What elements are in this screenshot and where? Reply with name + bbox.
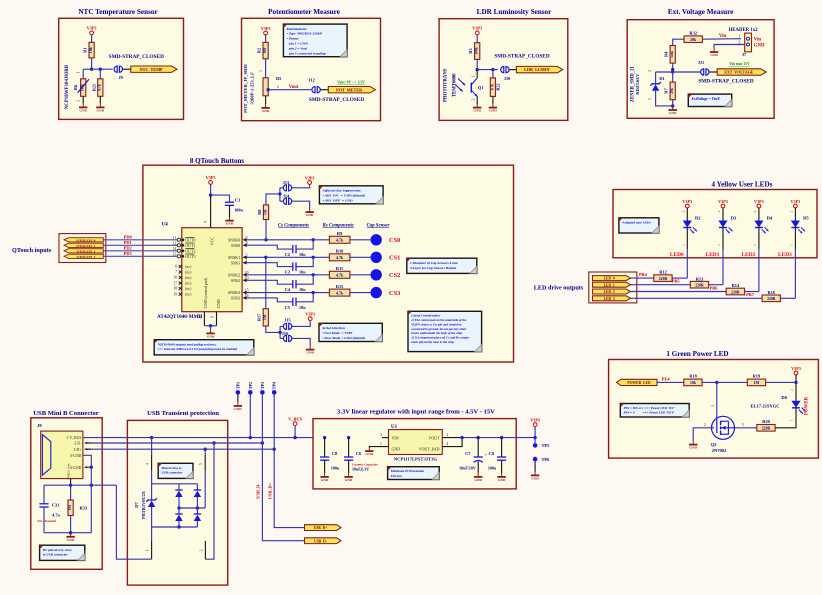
- wire V_BUS rail: [83, 437, 382, 439]
- note aligned leds: [619, 218, 659, 233]
- svg-text:LED0: LED0: [670, 252, 684, 258]
- power V3P3 (LDR): [472, 26, 482, 35]
- junction C9: [500, 436, 503, 439]
- SMD-STRAP_CLOSED label (EXT): [698, 78, 754, 84]
- wire zener to bottom rail: [151, 507, 153, 527]
- svg-text:U4: U4: [162, 223, 169, 228]
- Transient section title: [147, 410, 219, 417]
- svg-text:D2: D2: [695, 216, 701, 221]
- svg-text:1: 1: [77, 71, 81, 73]
- pin 11 OUT0: [173, 236, 196, 243]
- svg-text:R5: R5: [276, 76, 282, 81]
- nc pins 6 7 10 17 18 19: [173, 265, 192, 297]
- net label PD3: [124, 251, 133, 256]
- svg-text:POWER: POWER: [805, 396, 810, 415]
- svg-text:POT_METER_JP_SIDE: POT_METER_JP_SIDE: [243, 64, 248, 113]
- resistor R10: [329, 249, 350, 261]
- net label PD2: [124, 245, 132, 250]
- power V3P3 (power led): [791, 366, 801, 375]
- wire D- rail: [86, 442, 262, 444]
- junction gnd node: [671, 104, 674, 107]
- port flag LED 3: [593, 296, 631, 301]
- svg-text:QTouch inputs: QTouch inputs: [12, 247, 52, 254]
- wire C31 to bottom: [43, 507, 45, 533]
- svg-text:R21: R21: [91, 84, 96, 91]
- wire rc bottom rail: [44, 532, 91, 534]
- pin 2 label D2: [682, 210, 686, 212]
- resistor R22: [490, 78, 500, 97]
- svg-text:3260P-1-253_LF: 3260P-1-253_LF: [250, 72, 255, 105]
- svg-text:GND: GND: [473, 109, 481, 113]
- D6 part number: [750, 404, 779, 409]
- wire C9 to gnd: [501, 460, 503, 473]
- wire Q1 to gnd: [476, 97, 478, 104]
- power V3P3 (NTC): [87, 26, 97, 35]
- junction rc bottom: [69, 531, 72, 534]
- svg-text:220R: 220R: [659, 277, 668, 281]
- svg-text:NTC Temperature Sensor: NTC Temperature Sensor: [78, 8, 158, 16]
- svg-text:GND: GND: [710, 53, 718, 57]
- ground under R6: [79, 104, 88, 113]
- wire SNSK3 row: [247, 292, 330, 294]
- svg-text:Vin: Vin: [719, 34, 727, 39]
- wire D4 cathode down: [758, 227, 760, 291]
- power V3P3 (J15): [305, 312, 315, 321]
- svg-text:Potentiometer Measure: Potentiometer Measure: [268, 8, 340, 16]
- svg-text:3: 3: [259, 70, 263, 72]
- svg-text:TP6: TP6: [542, 457, 551, 462]
- wire shield down: [90, 467, 92, 485]
- svg-text:GND: GND: [79, 108, 87, 112]
- strap J10: [501, 67, 511, 81]
- svg-text:TEMT6000: TEMT6000: [453, 73, 458, 97]
- wire V3P3 down: [795, 375, 797, 401]
- ground ext: [669, 106, 678, 115]
- ground C7: [474, 473, 483, 482]
- note AKS: [319, 186, 383, 204]
- wire D6 to R20: [775, 407, 796, 427]
- ground C8: [320, 473, 329, 482]
- wire SNSK2 row: [247, 274, 330, 276]
- svg-text:nents physically near to the c: nents physically near to the chip.: [411, 340, 454, 344]
- net label LED3: [778, 252, 792, 258]
- net label CS2: [389, 272, 400, 279]
- svg-text:GND (central pad): GND (central pad): [203, 277, 208, 308]
- wire pot to gnd: [265, 96, 267, 105]
- wire pin5 to mid rail: [204, 470, 206, 508]
- svg-text:C3: C3: [285, 270, 291, 275]
- svg-text:TP1: TP1: [235, 382, 240, 389]
- test point TP2: [248, 382, 253, 395]
- svg-text:10n: 10n: [299, 305, 306, 310]
- svg-text:VOUT_PAD: VOUT_PAD: [419, 446, 440, 451]
- svg-text:C2: C2: [285, 252, 290, 257]
- Power LED title: [666, 350, 728, 358]
- svg-text:SNSK2: SNSK2: [228, 272, 240, 277]
- svg-text:Potentiometer: Potentiometer: [287, 27, 308, 31]
- wire to pin1: [151, 527, 153, 541]
- wire D+ to flag: [274, 449, 304, 527]
- wire R9 to sensor: [350, 239, 371, 241]
- header J7 1x2: [729, 28, 765, 57]
- NTC part number text: [65, 64, 70, 109]
- wire R2 to pot: [265, 59, 267, 78]
- svg-text:PHOTOTRANS: PHOTOTRANS: [444, 68, 449, 102]
- svg-text:USB D-: USB D-: [314, 539, 328, 543]
- wire C9 leg: [501, 438, 503, 457]
- wire R33 leg: [70, 485, 72, 500]
- ground Q2: [689, 441, 698, 450]
- svg-text:220R: 220R: [762, 427, 771, 431]
- wire R8 top to straps: [266, 194, 280, 205]
- svg-text:1: 1: [717, 244, 721, 246]
- capacitor C7 polarized: [459, 451, 487, 471]
- wire C7 leg: [477, 438, 479, 457]
- junction dminus tap: [212, 441, 215, 444]
- svg-text:J10: J10: [504, 76, 510, 81]
- test point TP4: [272, 381, 277, 395]
- svg-text:R7: R7: [663, 88, 668, 94]
- svg-text:Cs Components: Cs Components: [278, 223, 309, 228]
- svg-text:(nc): (nc): [185, 276, 192, 280]
- wire node to D1: [655, 72, 657, 84]
- wire LED0 to R12: [631, 277, 654, 279]
- svg-text:J11: J11: [698, 60, 704, 65]
- wire V3P3 to R1: [91, 35, 93, 43]
- svg-text:PB4: PB4: [639, 272, 648, 277]
- capacitor C4: [285, 280, 307, 292]
- svg-text:AT42QT1040-MMH: AT42QT1040-MMH: [157, 314, 202, 320]
- chip pins SNSK1/SNS1: [228, 253, 248, 265]
- wire C6 to gnd: [348, 460, 350, 473]
- svg-text:J15: J15: [284, 317, 290, 322]
- svg-text:220R: 220R: [731, 290, 740, 294]
- wire node to R6: [82, 69, 84, 79]
- strap J13: [283, 180, 292, 191]
- junction VOUT: [460, 436, 463, 439]
- junction V_BUS: [293, 436, 296, 439]
- svg-text:EL17-21SYGC: EL17-21SYGC: [750, 404, 779, 409]
- note potentiometer info: [283, 24, 347, 57]
- svg-text:R10: R10: [336, 249, 344, 254]
- pin 2 label D6: [789, 389, 793, 391]
- svg-text:OUT0: OUT0: [185, 238, 195, 243]
- net label Vin: [719, 34, 727, 39]
- resistor R19: [747, 374, 765, 386]
- wire pin1 to usb: [116, 485, 151, 559]
- svg-text:1: 1: [711, 405, 715, 407]
- wire SNS3 to cap: [247, 298, 293, 302]
- svg-text:GND: GND: [67, 538, 75, 542]
- svg-text:GND: GND: [234, 407, 242, 411]
- wire ext rail: [656, 71, 701, 73]
- LDR section title: [477, 8, 552, 16]
- not mounted text: [36, 519, 56, 523]
- wire R11 to sensor: [350, 274, 371, 276]
- svg-text:D1: D1: [659, 76, 664, 81]
- chip pins SNSK2/SNS2: [228, 271, 249, 283]
- svg-text:CS1: CS1: [389, 255, 400, 262]
- net label PD1: [124, 240, 132, 245]
- wire esd top rail: [152, 483, 198, 485]
- pin 2 stub: [199, 541, 205, 559]
- svg-text:• AKS 'OFF' = GND: • AKS 'OFF' = GND: [323, 198, 353, 202]
- power V3P3 out: [530, 418, 540, 427]
- pin 4 wire U1: [442, 438, 462, 447]
- net label USB_D-: [256, 483, 261, 499]
- wire SNSK1 row: [247, 256, 330, 258]
- svg-text:SNS2: SNS2: [231, 278, 240, 283]
- wire LED3 to R16: [631, 297, 763, 299]
- wire strap left bus: [278, 188, 283, 201]
- svg-text:(nc): (nc): [185, 271, 192, 275]
- svg-text:Cap Sensor: Cap Sensor: [367, 223, 390, 228]
- svg-text:8x8 mm: 8x8 mm: [391, 474, 402, 478]
- pin 2 label D1: [648, 70, 652, 72]
- pin 3 label Q2: [742, 423, 744, 427]
- Regulator section box: [313, 419, 516, 489]
- svg-text:1: 1: [790, 244, 794, 246]
- svg-text:1: 1: [738, 34, 740, 38]
- green Vout note: [337, 80, 365, 84]
- svg-text:2: 2: [717, 210, 721, 212]
- svg-text:1: 1: [380, 442, 382, 446]
- wire cap to SNSK0: [296, 240, 313, 249]
- svg-text:V3P3: V3P3: [206, 175, 216, 180]
- ground under R22: [489, 104, 498, 113]
- svg-text:10: 10: [173, 276, 177, 280]
- wire V3P3 to R2: [265, 35, 267, 43]
- pin arrow D-: [85, 442, 91, 444]
- svg-text:R17: R17: [256, 314, 261, 321]
- junction C7: [477, 436, 480, 439]
- wire to zener: [151, 484, 153, 500]
- svg-text:SNSK3: SNSK3: [228, 290, 240, 295]
- pin 2 label D3: [717, 210, 721, 212]
- svg-text:R33: R33: [80, 506, 88, 511]
- wire V3P3 col: [534, 427, 536, 444]
- svg-text:R12: R12: [659, 270, 667, 275]
- port flag POWER LED: [617, 379, 658, 385]
- U1 part number: [394, 456, 438, 461]
- svg-text:V3P3: V3P3: [791, 366, 801, 371]
- capacitor C31: [39, 503, 60, 518]
- svg-text:V_BUS: V_BUS: [288, 416, 302, 421]
- svg-text:J14: J14: [283, 194, 290, 199]
- wire R22 to gnd: [492, 96, 494, 104]
- wire TP2 to V_BUS: [249, 395, 251, 438]
- svg-text:GND: GND: [306, 213, 314, 217]
- power V3P3 (LED1): [718, 199, 728, 208]
- svg-text:NCP18WF104J03RB: NCP18WF104J03RB: [65, 64, 70, 109]
- thermistor R6: [73, 79, 89, 97]
- svg-text:R9: R9: [337, 231, 343, 236]
- svg-text:SNS1: SNS1: [231, 260, 240, 265]
- Ext Voltage section title: [668, 8, 734, 16]
- svg-text:C31: C31: [52, 503, 60, 508]
- wire pin5 upper: [204, 449, 206, 455]
- junction R8-SNSK0: [264, 238, 267, 241]
- svg-text:to USB connector: to USB connector: [43, 553, 69, 557]
- svg-text:GND: GND: [754, 44, 765, 49]
- svg-text:SNS0: SNS0: [231, 243, 240, 248]
- ground U1: [365, 448, 374, 457]
- wire tap to R21: [99, 69, 101, 79]
- svg-text:J9: J9: [118, 75, 122, 80]
- wire R33 to bottom: [70, 516, 72, 533]
- port flag QTOUCH 3: [64, 254, 103, 259]
- svg-text:PD0: PD0: [124, 234, 133, 239]
- wire 5-GND jog: [83, 455, 91, 467]
- port flag LED 2: [593, 289, 631, 294]
- wire V3P3 to D4: [758, 208, 760, 221]
- svg-text:1: 1: [146, 549, 150, 551]
- wire R13 to LED col: [709, 284, 723, 286]
- wire D5 cathode down: [794, 227, 796, 298]
- svg-text:2: 2: [704, 423, 706, 427]
- junction R17-SNSK1: [264, 256, 267, 259]
- port flag POT METER: [328, 87, 375, 93]
- note heatsink: [388, 467, 440, 480]
- svg-text:USB Mini B Connector: USB Mini B Connector: [33, 410, 98, 417]
- svg-text:R13: R13: [696, 276, 704, 281]
- svg-text:100k: 100k: [81, 84, 85, 91]
- wire R14 to LED col: [745, 291, 759, 293]
- strap J16: [282, 331, 292, 341]
- svg-text:C7: C7: [465, 451, 471, 456]
- svg-text:EXT VOLTAGE: EXT VOLTAGE: [724, 70, 754, 75]
- svg-text:Vin max 15V: Vin max 15V: [729, 62, 750, 66]
- net label PB4: [639, 272, 648, 277]
- ground under chip: [206, 330, 215, 339]
- wire R17 top to SNSK1: [265, 257, 267, 308]
- svg-text:SMD-STRAP_CLOSED: SMD-STRAP_CLOSED: [698, 78, 754, 84]
- wire LED1 to R13: [631, 284, 691, 286]
- svg-text:Rs Components: Rs Components: [323, 223, 354, 228]
- note ext voltage: [688, 94, 731, 106]
- svg-text:• Fast Mode = V3P3: • Fast Mode = V3P3: [322, 331, 352, 335]
- svg-text:4.7k: 4.7k: [336, 290, 344, 295]
- light arrow 1 into Q1: [458, 79, 465, 86]
- svg-text:1M: 1M: [263, 314, 267, 320]
- pin 1 label D1: [648, 98, 652, 100]
- net label PB6: [710, 285, 719, 290]
- wire QTOUCH 3 to chip: [103, 255, 177, 257]
- wire V3P3 to D2: [686, 208, 688, 221]
- Rs Components header: [323, 223, 354, 228]
- svg-text:1: 1: [789, 419, 793, 421]
- wire V3P3 to VCC node: [210, 184, 212, 195]
- wire SNSK0 row: [247, 239, 330, 241]
- ground J16: [306, 346, 315, 355]
- wire C1 to gnd: [229, 205, 231, 217]
- POWER label: [805, 396, 810, 415]
- Yellow LEDs section box: [613, 190, 817, 258]
- LED D3: [718, 216, 737, 234]
- junction TP3: [261, 441, 264, 444]
- wire right leg: [90, 485, 92, 533]
- pin 2 label D5: [790, 210, 794, 212]
- svg-text:2: 2: [77, 100, 81, 102]
- ground under R21: [96, 104, 105, 113]
- svg-text:PE4 = HZ or 1 ==> Power LED 'O: PE4 = HZ or 1 ==> Power LED 'ON': [624, 406, 675, 410]
- svg-text:CS0: CS0: [389, 237, 400, 244]
- wire C8 to gnd: [324, 460, 326, 473]
- wire R1 to node: [91, 58, 93, 69]
- svg-text:1: 1: [648, 98, 652, 100]
- chip pins SNSK3/SNS3: [228, 289, 249, 301]
- svg-text:PB7: PB7: [746, 292, 755, 297]
- ground C6: [344, 473, 353, 482]
- resistor R9: [329, 231, 350, 243]
- svg-text:D4: D4: [767, 216, 773, 221]
- svg-text:1.Diameter of Cap Sensors 8 mm: 1.Diameter of Cap Sensors 8 mm: [410, 261, 458, 265]
- regulator U1 body: [389, 425, 443, 455]
- net label PD0: [124, 234, 133, 239]
- svg-text:100n: 100n: [234, 208, 243, 213]
- resistor R11: [329, 266, 350, 278]
- wire TP4 to D+: [273, 395, 275, 450]
- junction C6: [347, 436, 350, 439]
- pin 2 wire U1: [442, 433, 462, 438]
- svg-text:(nc): (nc): [185, 282, 192, 286]
- wire gate down: [716, 382, 718, 416]
- svg-text:4.7k: 4.7k: [98, 84, 102, 91]
- svg-text:PRTR5V0U2X: PRTR5V0U2X: [141, 490, 146, 519]
- svg-text:Not Mounted: Not Mounted: [36, 519, 56, 523]
- svg-text:(nc): (nc): [185, 287, 192, 291]
- wire QTOUCH 2 to chip: [103, 250, 177, 252]
- svg-text:R4: R4: [663, 51, 668, 57]
- svg-text:3: 3: [742, 423, 744, 427]
- wire R4 to node: [672, 63, 674, 72]
- pin 1 label D4: [753, 244, 757, 246]
- svg-text:GND: GND: [366, 452, 374, 456]
- svg-text:3-D+: 3-D+: [73, 448, 81, 452]
- svg-text:10k: 10k: [89, 46, 93, 53]
- svg-text:• Type 'BOURNS 3260P': • Type 'BOURNS 3260P': [287, 32, 323, 36]
- wire D1 to bottom: [656, 91, 673, 106]
- USB connector section box: [31, 418, 102, 570]
- svg-text:LED drive outputs: LED drive outputs: [534, 285, 584, 292]
- svg-text:CS2: CS2: [389, 272, 400, 279]
- svg-text:(nc): (nc): [185, 265, 192, 269]
- ground header: [710, 49, 719, 58]
- QTouch inputs box: [59, 234, 106, 263]
- svg-text:6: 6: [175, 265, 177, 269]
- wire D- to flag: [262, 443, 304, 541]
- Cs Components header: [278, 223, 309, 228]
- diode D7d: [194, 508, 201, 527]
- svg-text:2: 2: [789, 389, 793, 391]
- svg-text:LED 1: LED 1: [604, 283, 615, 287]
- QTouch section box: [143, 165, 514, 362]
- LED D5: [791, 216, 810, 234]
- svg-text:C5: C5: [285, 305, 291, 310]
- net label Vout: [289, 85, 299, 90]
- svg-text:Vout: 0V --> 3.3V: Vout: 0V --> 3.3V: [337, 80, 365, 84]
- wire node to C1: [211, 195, 230, 202]
- svg-text:PD2: PD2: [124, 245, 132, 250]
- svg-text:PB5: PB5: [672, 279, 681, 284]
- NTC Temperature Sensor section box: [59, 18, 184, 119]
- ground C9: [497, 473, 506, 482]
- note layout consideration: [408, 311, 482, 351]
- svg-text:Minimum PCB heatsink: Minimum PCB heatsink: [390, 469, 425, 473]
- svg-text:PD3: PD3: [124, 251, 133, 256]
- svg-text:TP3: TP3: [260, 382, 265, 389]
- junction V3P3-R19: [794, 381, 797, 384]
